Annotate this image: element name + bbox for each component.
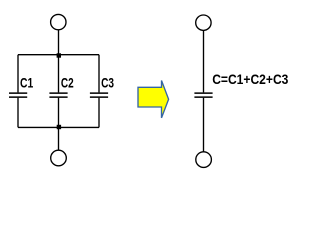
wire C3 bottom xyxy=(98,98,100,128)
wire bottom bus xyxy=(18,126,99,128)
capacitor C2 xyxy=(49,93,67,97)
wire C3 top xyxy=(98,55,100,93)
terminal T1 (top, left circuit) xyxy=(51,14,66,29)
wire C1 bottom xyxy=(17,98,19,128)
svg-text:C=C1+C2+C3: C=C1+C2+C3 xyxy=(212,71,288,87)
terminal T2 (bottom, left circuit) xyxy=(51,150,67,166)
capacitor C1 xyxy=(9,93,27,97)
svg-text:C3: C3 xyxy=(101,75,114,91)
arrow (yellow block arrow) xyxy=(138,81,169,118)
wire bottom bus to T2 xyxy=(58,127,60,150)
junction node bottom xyxy=(57,125,61,129)
wire capacitor C to T4 xyxy=(203,98,205,152)
capacitor C (equivalent) xyxy=(194,93,212,97)
wire C2 top xyxy=(58,55,60,93)
capacitor C3 xyxy=(90,93,108,97)
wire T3 to capacitor C xyxy=(203,30,205,92)
wire C1 top xyxy=(17,55,19,93)
terminal T3 (top, right circuit) xyxy=(196,15,211,30)
svg-text:C2: C2 xyxy=(61,75,74,91)
wire C2 bottom xyxy=(58,98,60,128)
junction node top xyxy=(57,53,61,57)
svg-text:C1: C1 xyxy=(20,75,33,91)
terminal T4 (bottom, right circuit) xyxy=(196,152,212,168)
wire top bus xyxy=(18,54,99,56)
wire T1 to top bus xyxy=(58,30,60,55)
